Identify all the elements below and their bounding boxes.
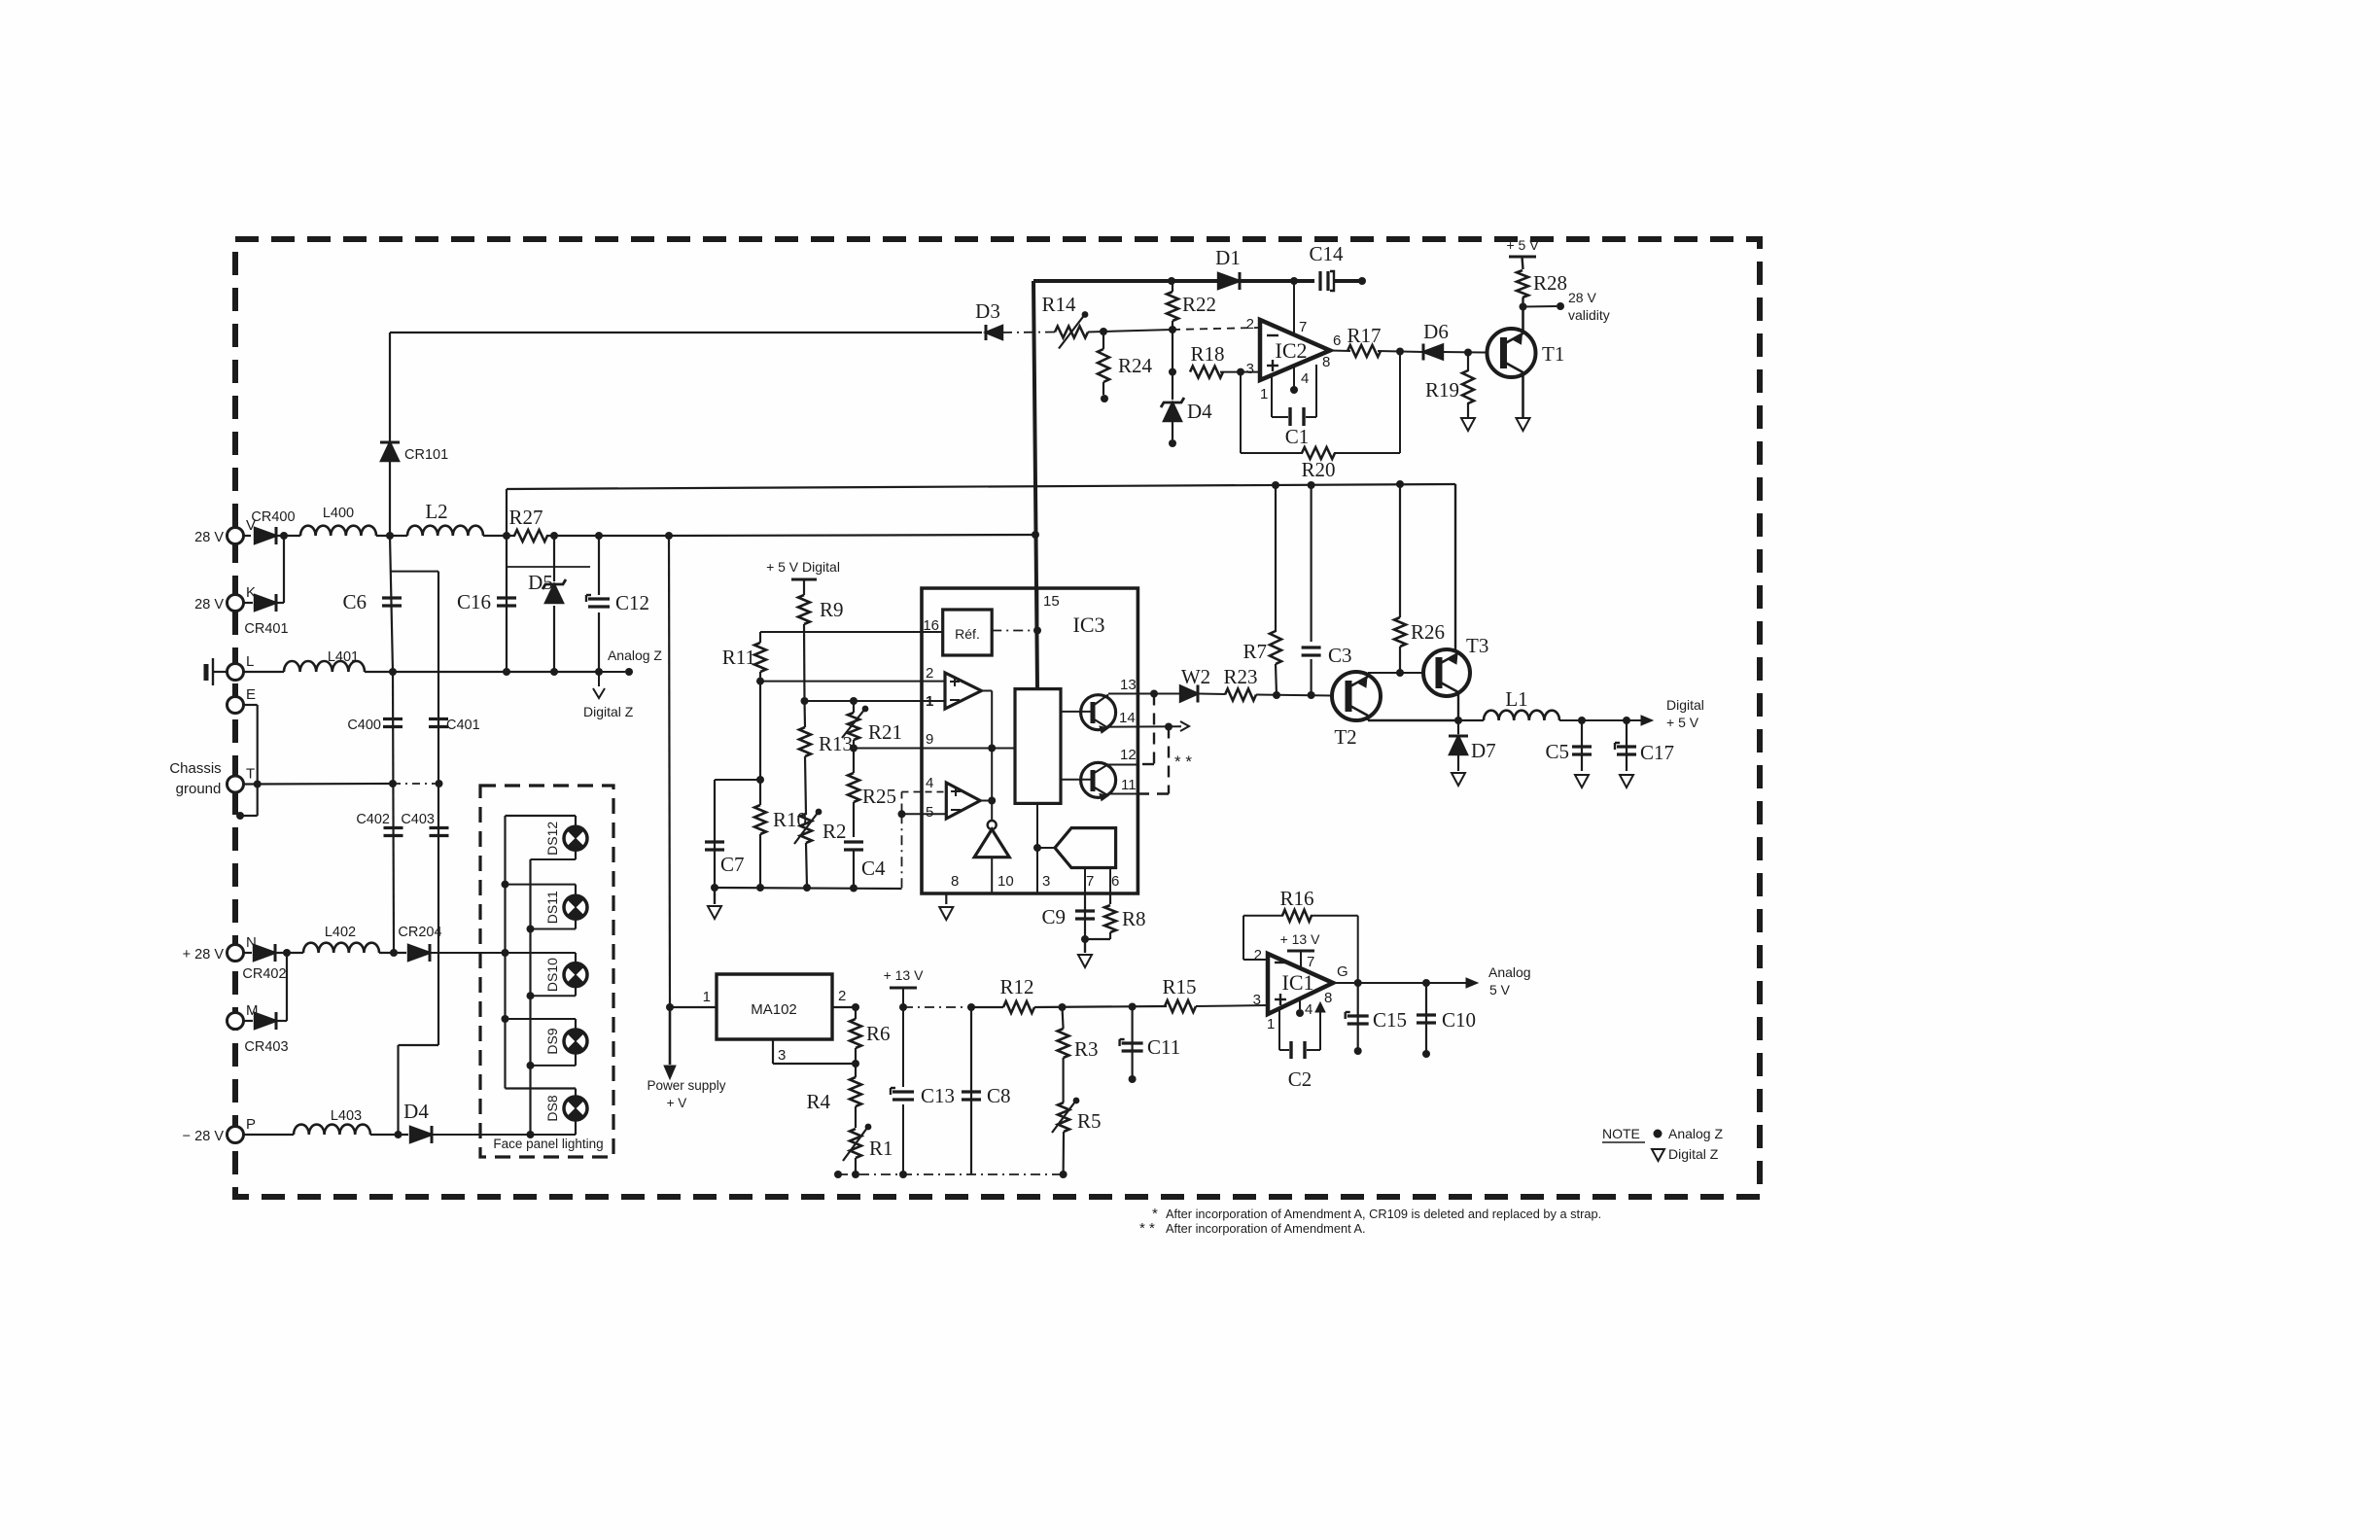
svg-text:D1: D1 [1215,246,1241,269]
wire W2 to R23 [1199,693,1225,696]
svg-text:3: 3 [1246,361,1254,377]
svg-text:DS8: DS8 [544,1095,560,1121]
node CR101/L2 [386,532,394,540]
reference block Ref [943,610,993,655]
wire pin14 with arrow [1108,725,1181,727]
terminal V [227,528,244,544]
svg-text:R23: R23 [1223,665,1257,688]
wire L1 to +5V digital out [1559,719,1641,721]
node E loop x T line [254,781,262,788]
transistor Q1 in IC3 [1081,695,1116,730]
node R26 top [1396,480,1404,488]
svg-text:CR402: CR402 [242,966,286,982]
node C12 top [595,532,603,540]
node R24 top [1100,328,1107,335]
wire main thick vertical [1033,281,1037,688]
svg-text:R1: R1 [869,1137,893,1160]
svg-text:2: 2 [1246,316,1254,332]
ground below C9 [1084,939,1086,953]
svg-text:IC2: IC2 [1276,338,1308,363]
svg-text:CR204: CR204 [398,925,441,940]
svg-text:5 V: 5 V [1489,982,1511,997]
lamp DS11 [506,884,577,886]
node C6 bottom [389,668,397,676]
transistor T1 [1487,329,1536,377]
diode CR401 [244,602,254,604]
svg-text:L400: L400 [323,506,354,521]
node lamp bus2 bottom [527,1131,535,1138]
svg-text:C16: C16 [457,590,491,613]
wire CR401 to 28V rail [276,602,284,604]
svg-text:8: 8 [1324,990,1332,1006]
arrow analog 5V [1466,978,1478,988]
wire pin9 to driver [992,748,1015,750]
node IC2 pin3 / R20 branch [1237,368,1244,376]
svg-text:C11: C11 [1147,1035,1180,1059]
svg-text:R11: R11 [722,646,755,669]
diode CR101 [381,442,399,461]
svg-text:NOTE: NOTE [1602,1126,1640,1141]
face panel lighting dashed box [480,786,613,1157]
capacitor C17 polarized [1626,720,1627,771]
svg-text:C8: C8 [987,1084,1011,1107]
svg-text:R24: R24 [1118,354,1153,377]
node bus2 DS11 [527,926,535,933]
variable resistor R1 [850,1129,861,1158]
wire inverter to pin10 [991,857,993,893]
node R6 top [852,1003,859,1011]
svg-text:6: 6 [1333,332,1341,349]
arrow power supply +V [669,1007,672,1065]
dashed strap pin14-pin11 [1168,727,1170,794]
wire pentagon pin7 [1084,868,1086,894]
svg-text:− 28 V: − 28 V [183,1129,225,1144]
svg-text:L: L [246,653,254,670]
svg-text:W2: W2 [1181,665,1210,688]
lamp DS9 [506,1018,577,1020]
node R6 bottom [852,1060,859,1067]
wire pin8 ground stub [945,893,947,904]
svg-text:C4: C4 [861,857,886,880]
svg-text:Digital Z: Digital Z [583,704,634,719]
resistor R25 [853,749,855,774]
svg-text:Chassis: Chassis [169,760,221,777]
terminal K [227,595,244,612]
wire C1 to IC2 pin8 [1306,416,1316,418]
node pin14 strap [1165,723,1172,731]
op-amp IC2 [1260,320,1330,380]
svg-text:D4: D4 [1187,400,1212,423]
svg-text:13: 13 [1120,677,1137,693]
svg-text:P: P [246,1116,256,1133]
node pin9 junction [988,745,996,752]
svg-text:R6: R6 [866,1022,891,1045]
node pentagon branch [1033,844,1041,852]
wire R14 to R24 node [1088,330,1172,332]
svg-text:2: 2 [1254,947,1262,963]
capacitor C14 [1318,271,1321,291]
resistor R16 feedback [1243,959,1268,961]
node R21 bottom pin9 [850,745,857,752]
node C12 bottom [595,668,603,676]
node C5 [1578,717,1586,724]
wire main vertical into driver [1036,588,1039,689]
capacitor C6 [390,536,393,672]
node R19 top [1464,349,1472,357]
svg-text:4: 4 [1301,370,1309,387]
svg-text:C17: C17 [1640,741,1674,764]
node R7 top [1272,481,1279,489]
variable resistor R2 [800,814,812,843]
wire MA102 pin3 jog [772,1039,774,1064]
MA102 block [717,974,832,1039]
node R26 bottom T3 base [1396,669,1404,677]
node power-supply branch [665,532,673,540]
capacitor C13 polarized [892,1087,916,1104]
node N line / CR204 [390,949,398,957]
svg-text:5: 5 [926,804,933,821]
svg-text:14: 14 [1119,710,1136,726]
wire terminal E loop [244,704,258,706]
svg-text:28 V: 28 V [194,597,224,612]
resistor R17 [1347,345,1381,357]
capacitor C10 [1425,983,1427,1054]
node R9/R13/pin1 line [801,697,809,705]
svg-text:9: 9 [926,731,933,748]
svg-text:11: 11 [1121,777,1137,793]
wire stub to C401 column [391,571,438,573]
svg-text:4: 4 [1305,1001,1312,1018]
node R2 rail [803,884,811,892]
svg-text:D5: D5 [528,571,553,594]
svg-text:After incorporation of Amendme: After incorporation of Amendment A. [1166,1221,1366,1236]
wire L403 to D4 [370,1134,408,1136]
arrow digital +5V [1641,716,1653,725]
capacitor C9 [1084,893,1086,939]
svg-text:C5: C5 [1545,740,1569,763]
node C3 bottom [1308,691,1315,699]
wire C403 jog to P line [399,1044,439,1046]
resistor R18 [1190,367,1223,378]
wire C400/C402 column [393,672,394,953]
node IC2 pin7 branch [1290,277,1298,285]
chassis ground symbol at terminal L [213,671,227,673]
terminal dot C10 bottom [1422,1050,1430,1058]
output gate pentagon in IC3 [1037,847,1055,849]
node R21 top [850,697,857,705]
svg-text:C2: C2 [1288,1067,1312,1091]
resistor R19 [1467,353,1469,372]
resistor R9 [803,579,805,595]
diode CR204 [408,945,430,961]
node D5 top [550,532,558,540]
capacitor C2 loop [1278,1008,1280,1050]
lamp DS12 [506,815,577,817]
resistor R8 [1109,893,1111,904]
node R14 line x R22 [1169,326,1176,333]
wire L2 to R27 [483,535,515,537]
svg-text:R20: R20 [1301,458,1335,481]
diode CR400 [255,528,276,543]
lamp DS10 [506,952,577,954]
svg-text:R21: R21 [868,720,902,744]
capacitor C15 polarized [1357,983,1359,1051]
capacitor C11 polarized [1131,1007,1133,1080]
svg-text:E: E [246,686,256,703]
svg-text:G: G [1337,963,1348,980]
terminal dot below R24 [1101,395,1108,402]
ground below C17 [1620,775,1633,787]
node C4 rail [850,885,857,892]
svg-text:CR400: CR400 [251,509,295,525]
wire IC2 output [1330,350,1350,353]
wire analog bottom rail [715,888,902,889]
wire Ref output dash-dot [992,630,1037,632]
resistor R3 [1063,1007,1064,1029]
wire L401 to C12 bottom [365,671,599,673]
svg-text:T3: T3 [1466,634,1488,657]
resistor R7 [1275,485,1277,632]
node after CR400 [280,532,288,540]
terminal dot left of R1 [834,1171,842,1178]
wire CR403 up to N node [276,1020,287,1022]
svg-text:R19: R19 [1425,378,1459,402]
transistor T2 [1332,672,1381,720]
svg-text:IC3: IC3 [1073,612,1105,637]
svg-text:7: 7 [1086,873,1094,890]
ground below D7 [1452,773,1465,786]
diode CR403 [244,1020,254,1022]
svg-text:28 V: 28 V [1568,290,1596,305]
wire 28V rail [244,535,252,537]
resistor R27 [514,530,547,542]
op-amp A in IC3 [945,673,981,709]
capacitor C7 [715,779,760,781]
node R22 top [1168,277,1175,285]
svg-text:8: 8 [1322,354,1330,370]
node D5 bottom [550,668,558,676]
svg-text:7: 7 [1299,319,1307,335]
wire lamp bus1 [504,816,506,1089]
svg-text:C15: C15 [1373,1008,1407,1032]
wire R23 to T2 base [1256,695,1332,696]
wire pentagon pin6 [1109,868,1111,894]
terminal dot C15 bottom [1354,1047,1362,1055]
node C11 top [1129,1003,1137,1011]
op-amp B in IC3 [946,783,980,819]
svg-text:Analog: Analog [1488,964,1531,980]
svg-text:R27: R27 [508,506,542,529]
svg-text:Analog Z: Analog Z [608,647,662,663]
resistor R13 [803,701,806,727]
node C7 stub [756,776,764,784]
wire IC2 pin7 [1293,281,1295,334]
svg-text:L403: L403 [331,1108,362,1124]
node 28V validity [1520,303,1527,311]
node R7 bottom [1273,691,1280,699]
inductor L1 [1458,719,1484,721]
node C7 rail [711,884,718,892]
svg-text:3: 3 [1253,992,1261,1008]
node R11 bottom pin2 [756,678,764,685]
node R20 right branch [1396,348,1404,356]
svg-text:CR101: CR101 [404,447,448,463]
svg-text:16: 16 [923,617,939,634]
transistor Q2 in IC3 [1081,762,1116,797]
wire analog common dash line [838,1173,1064,1175]
svg-text:+ 5 V: + 5 V [1506,237,1539,253]
capacitor C4 [844,840,863,843]
inductor L400 [300,526,376,536]
terminal M [227,1013,244,1030]
svg-text:+ 13 V: + 13 V [1280,931,1321,947]
terminal dot below D4 [1169,439,1176,447]
svg-text:12: 12 [1120,747,1137,763]
svg-text:Réf.: Réf. [955,626,980,642]
svg-text:28 V: 28 V [194,530,224,545]
svg-text:Face panel lighting: Face panel lighting [493,1137,603,1151]
resistor R26 [1399,484,1401,617]
node R1 bottom [852,1171,859,1178]
svg-text:1: 1 [703,989,711,1005]
svg-text:1: 1 [1267,1016,1275,1032]
wire to MA102 pin1 [669,536,670,1007]
svg-text:D4: D4 [403,1100,429,1123]
inductor L402 [303,943,379,953]
+5V supply bar [1509,256,1536,259]
svg-text:* *: * * [1139,1220,1155,1237]
wire IC2 pin4 stub [1293,367,1295,387]
wire pin16 line [760,631,943,633]
svg-text:R17: R17 [1347,324,1381,347]
svg-text:R7: R7 [1242,640,1267,663]
node R5 bottom [1060,1171,1067,1178]
diode D1 [1218,273,1240,289]
svg-text:C3: C3 [1328,644,1352,667]
svg-text:R14: R14 [1041,293,1076,316]
svg-text:C13: C13 [921,1084,955,1107]
node op-amp outputs [988,797,996,805]
node MA102 pin1 [666,1003,674,1011]
svg-text:R9: R9 [820,598,844,621]
terminal dot 28V validity [1557,302,1564,310]
terminal L [227,664,244,681]
zener diode D5 [553,536,555,672]
svg-text:R2: R2 [822,820,847,843]
wire R15 to IC1 pin3 [1196,1005,1268,1006]
wire T2 emitter rail [1367,716,1369,720]
svg-text:CR401: CR401 [244,621,288,637]
svg-text:DS12: DS12 [544,822,560,856]
wire driver to pin3 [1036,803,1038,893]
resistor R12 [1003,1001,1034,1013]
svg-text:IC1: IC1 [1282,970,1314,995]
node C3 top [1308,481,1315,489]
svg-text:DS9: DS9 [544,1028,560,1054]
svg-text:C14: C14 [1309,242,1344,265]
node bus1 DS11 [502,881,509,889]
svg-text:C403: C403 [401,812,435,827]
wire IC1 output [1333,982,1466,984]
svg-text:C1: C1 [1285,425,1310,448]
capacitor C401 [429,717,448,720]
inductor L403 [244,1134,295,1136]
wire IC2 pin1 to C1 [1271,375,1273,417]
svg-text:C6: C6 [342,590,367,613]
node T line x451 [436,780,443,787]
svg-text:+ 5 V: + 5 V [1666,715,1699,730]
variable resistor R21 [853,701,855,713]
wire D3 to R14 dash-dot [1002,332,1055,334]
wire R12 to R15 [1034,1006,1167,1007]
dashed strap pin13-pin12 [1153,694,1155,765]
svg-text:+ 5 V Digital: + 5 V Digital [766,559,840,575]
svg-text:C12: C12 [615,591,649,614]
svg-text:3: 3 [1042,873,1050,890]
node +13V rail [899,1003,907,1011]
node C403 jog on P line [395,1131,402,1138]
node R3 top [1059,1003,1067,1011]
wire regulator rail [507,484,1455,489]
svg-text:R26: R26 [1411,620,1445,644]
Digital Z arrow [598,672,600,686]
wire op-amp A output [981,690,992,692]
node CR402/CR403 [283,949,291,957]
node R10 rail [756,884,764,892]
lamp DS8 [575,1089,577,1098]
svg-text:L1: L1 [1505,687,1527,711]
terminal dot C11 bottom [1129,1075,1137,1083]
resistor R11 [759,632,761,643]
svg-text:ground: ground [176,781,222,797]
svg-text:R4: R4 [806,1090,830,1113]
wire T3 emitter [1457,692,1459,720]
capacitor C402 [384,826,403,829]
ground below C5 [1575,775,1589,787]
variable resistor R14 [1055,327,1088,338]
diode W2 [1180,686,1198,702]
wire lamp bus2 [529,859,531,1135]
svg-text:R18: R18 [1190,342,1224,366]
svg-text:C7: C7 [720,853,745,876]
svg-text:T1: T1 [1542,342,1564,366]
wire C8 to R12 [971,1006,1003,1008]
svg-text:R3: R3 [1074,1037,1099,1061]
resistor R20 [1302,447,1335,459]
node bus1 DS9 [502,1015,509,1023]
svg-text:C9: C9 [1041,905,1066,928]
resistor R6 [855,1007,857,1019]
wire stub y583 [507,566,590,568]
svg-text:15: 15 [1043,593,1060,610]
svg-text:Digital Z: Digital Z [1668,1146,1719,1162]
resistor R15 [1165,1000,1196,1012]
svg-text:C401: C401 [446,717,480,733]
terminal dot E loop on border [236,812,244,820]
wire pin1 line [805,700,946,702]
capacitor C12 polarized [598,536,600,672]
terminal P [227,1127,244,1143]
IC3 box [922,588,1137,893]
inverter in IC3 [988,821,997,829]
wire T2 collector to T3 base [1367,673,1369,677]
svg-text:+ V: + V [667,1096,687,1110]
node C13 bottom [899,1171,907,1178]
capacitor C400 [383,717,402,720]
svg-text:D6: D6 [1423,320,1449,343]
zener diode D4 [1172,372,1173,400]
svg-text:C402: C402 [356,812,390,827]
